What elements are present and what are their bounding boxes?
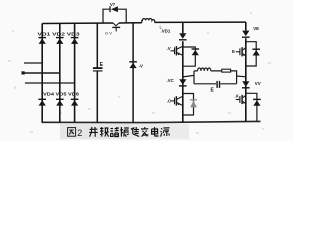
diode VD1 [38,37,46,44]
inductor Ld (dc link choke) [142,18,155,22]
diode VD7 (chopper freewheel, points left) [109,6,118,12]
diode VD2 [56,37,64,44]
diode antiparallel right-bottom [253,99,261,106]
caption 并联谐振逆变电源 [89,127,169,137]
wire loop left-top [183,47,196,66]
svg-text:-V: -V [139,64,143,69]
diode VD6 [71,99,79,106]
bridge leg 1 wire [41,24,43,123]
svg-text:VD1 VD2 VD3: VD1 VD2 VD3 [38,32,81,37]
wire phase C input [25,82,75,84]
caption 图 [68,128,76,137]
源 [161,128,170,137]
svg-text:V7: V7 [110,2,116,7]
逆 [131,127,139,136]
bridge leg 3 wire [74,23,76,122]
right inverter leg wire [245,22,247,122]
svg-text:.VC: .VC [167,78,175,83]
svg-text:VE: VE [253,26,259,31]
联 [100,127,109,137]
diode antiparallel left-bottom (gray) [190,99,197,107]
wire loop right-bottom [246,93,257,121]
diode VD5 [56,99,64,106]
capacitor C (tank) [216,81,220,88]
wire phase A input [24,62,42,64]
wire tank feed right [237,75,246,78]
transistor V1 (left top IGBT) [171,46,183,55]
node phase B terminal [22,71,25,74]
inductor L (tank coil) [198,68,211,71]
diode VD8 (dc-link freewheel) [129,61,137,68]
wire filter-cap branch [96,23,98,122]
tank rectangle wires [194,71,237,84]
transistor V2 (right top IGBT) [236,45,246,59]
wire freewheel-diode branch [132,23,134,123]
svg-text:VD4 VD5 VD6: VD4 VD5 VD6 [43,91,80,96]
wire chopper loop [103,9,126,23]
left inverter leg wire [182,22,184,122]
wire loop left-bottom [183,94,194,116]
svg-text:G V: G V [105,31,112,36]
变 [141,127,148,137]
transistor V3 (left bottom IGBT) [171,96,183,105]
并 [89,127,98,137]
svg-text:E: E [100,62,104,68]
top DC rail [42,22,246,23]
电 [152,127,159,136]
diode VD12 (series, left bottom) [179,79,187,86]
wire tank feed left [183,75,194,77]
svg-text:.V: .V [167,46,171,51]
svg-text:.X: .X [235,93,239,98]
bridge leg 2 wire [59,23,61,122]
transistor V7 (chopper IGBT) [112,23,120,31]
scan speckle [8,12,271,134]
谐 [110,127,118,137]
transistor V4 (right bottom IGBT) [236,93,246,107]
diode antiparallel right-top [252,49,260,56]
bottom DC rail [42,121,261,122]
caption band [60,124,132,139]
振 [120,127,129,137]
svg-text:VV: VV [255,81,261,86]
diode VD22 (series, right bottom) [242,81,250,88]
diode VD21 (series, right top) [242,31,250,38]
svg-text:.VD1: .VD1 [161,29,171,34]
svg-text:2: 2 [77,128,82,138]
diode VD11 (series, left top) [179,33,187,40]
wire phase B input [23,72,60,74]
diode VD3 [71,37,79,44]
diode antiparallel left-top [192,48,200,55]
capacitor C (filter) [93,67,103,71]
wire loop right-top [246,42,256,66]
resistor R (load) [222,69,231,72]
diode VD4 [38,99,46,106]
svg-text:E: E [232,49,235,54]
